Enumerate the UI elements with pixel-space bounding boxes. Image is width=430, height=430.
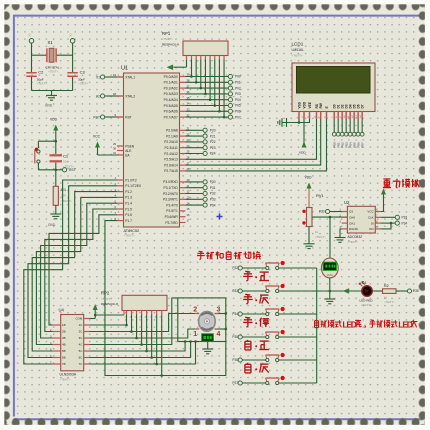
svg-text:P33: P33 (232, 289, 238, 293)
svg-text:P0.3/AD3: P0.3/AD3 (164, 92, 178, 96)
svg-text:P07: P07 (235, 115, 241, 119)
svg-text:P1.0/T2: P1.0/T2 (125, 178, 137, 182)
svg-text:CS: CS (349, 210, 353, 214)
svg-text:1: 1 (193, 331, 197, 338)
svg-text:P03: P03 (235, 92, 241, 96)
svg-text:CRYSTAL: CRYSTAL (46, 66, 60, 70)
svg-text:X2: X2 (96, 94, 100, 98)
svg-text:D7: D7 (361, 104, 365, 108)
svg-text:VDD: VDD (305, 176, 313, 180)
svg-text:3C: 3C (79, 336, 83, 340)
svg-text:7B: 7B (62, 362, 66, 366)
svg-text:U1: U1 (121, 66, 128, 72)
svg-text:VDD: VDD (302, 101, 306, 108)
svg-text:P32: P32 (232, 266, 238, 270)
svg-text:P36: P36 (232, 358, 238, 362)
svg-text:P32: P32 (210, 192, 216, 196)
svg-text:P33: P33 (210, 198, 216, 202)
svg-text:P2.0/A8: P2.0/A8 (166, 129, 178, 133)
svg-text:10u: 10u (63, 160, 68, 164)
svg-text:P33: P33 (402, 216, 408, 220)
svg-text:P3.3/INT1: P3.3/INT1 (163, 198, 178, 202)
svg-text:C1: C1 (63, 154, 69, 159)
svg-text:GND.: GND. (45, 104, 53, 108)
svg-text:P31: P31 (210, 186, 216, 190)
svg-text:X1: X1 (96, 75, 100, 79)
svg-text:P2.4/A12: P2.4/A12 (164, 152, 178, 156)
svg-text:<TEXT>: <TEXT> (78, 82, 88, 86)
svg-text:U4: U4 (59, 308, 65, 313)
svg-text:P20: P20 (210, 129, 216, 133)
svg-text:<TEXT>: <TEXT> (361, 303, 372, 307)
svg-text:ALE: ALE (125, 149, 132, 153)
svg-text:P0.1/AD1: P0.1/AD1 (164, 81, 178, 85)
svg-text:P0.2/AD2: P0.2/AD2 (164, 86, 178, 90)
svg-text:<TEXT>: <TEXT> (347, 240, 358, 244)
svg-text:RESPACK-8: RESPACK-8 (101, 302, 118, 306)
svg-text:4: 4 (217, 331, 221, 338)
svg-text:2: 2 (193, 306, 197, 313)
svg-text:10K: 10K (61, 194, 66, 198)
svg-text:P30: P30 (210, 180, 216, 184)
svg-text:P3.7/RD: P3.7/RD (165, 221, 178, 225)
svg-text:<TEXT>: <TEXT> (315, 235, 326, 239)
svg-text:6B: 6B (62, 356, 66, 360)
svg-text:XTAL2: XTAL2 (125, 94, 135, 98)
svg-text:P3.1/TXD: P3.1/TXD (164, 186, 179, 190)
svg-text:RP2: RP2 (101, 291, 110, 296)
svg-text:VCC: VCC (93, 135, 101, 139)
svg-text:P0.4/AD4: P0.4/AD4 (164, 98, 178, 102)
svg-text:D: D (407, 319, 413, 329)
svg-text:RV1: RV1 (316, 193, 324, 198)
svg-text:P02: P02 (235, 86, 241, 90)
svg-text:DGND: DGND (349, 227, 359, 231)
svg-text:CH0: CH0 (349, 216, 355, 220)
svg-text:P1.5: P1.5 (125, 207, 132, 211)
svg-text:P21: P21 (210, 134, 216, 138)
svg-text:Volts: Volts (327, 273, 334, 277)
svg-text:P2.2/A10: P2.2/A10 (164, 140, 178, 144)
svg-text:U2: U2 (344, 200, 350, 205)
svg-text:1C: 1C (79, 323, 83, 327)
svg-text:P05: P05 (235, 104, 241, 108)
svg-text:GND.: GND. (48, 223, 56, 227)
svg-text:<TEXT>: <TEXT> (292, 54, 303, 58)
svg-text:P3.0/RXD: P3.0/RXD (163, 180, 178, 184)
svg-text:<TEXT>: <TEXT> (48, 70, 58, 74)
svg-text:P30: P30 (319, 210, 325, 214)
svg-text:P3.2/INT0: P3.2/INT0 (163, 192, 178, 196)
svg-text:VSS: VSS (297, 102, 301, 108)
svg-text:P3.5/T1: P3.5/T1 (166, 209, 178, 213)
svg-text:P1.4: P1.4 (125, 202, 132, 206)
svg-text:X2: X2 (69, 33, 73, 37)
svg-text:C3: C3 (80, 70, 86, 75)
svg-text:VDD: VDD (299, 151, 306, 155)
svg-text:5C: 5C (79, 349, 83, 353)
svg-text:30pF: 30pF (37, 77, 44, 81)
svg-text:VCC: VCC (367, 210, 374, 214)
svg-text:P0.0/AD0: P0.0/AD0 (164, 75, 178, 79)
svg-text:X1: X1 (48, 40, 54, 45)
svg-text:ULN2003A: ULN2003A (60, 373, 77, 377)
svg-text:CLK: CLK (368, 216, 374, 220)
svg-text:RST: RST (69, 168, 76, 172)
svg-text:DO: DO (369, 227, 374, 231)
svg-text:7C: 7C (79, 362, 83, 366)
svg-text:5B: 5B (62, 349, 66, 353)
svg-text:P1.1/T2EX: P1.1/T2EX (125, 184, 142, 188)
svg-text:4C: 4C (79, 343, 83, 347)
svg-text:PSEN: PSEN (125, 144, 135, 148)
svg-text:P34: P34 (210, 203, 216, 207)
svg-text:X1: X1 (28, 33, 32, 37)
svg-text:P07: P07 (360, 142, 364, 148)
svg-text:2C: 2C (79, 330, 83, 334)
svg-text:<TEXT>: <TEXT> (37, 82, 47, 86)
svg-text:P2.1/A9: P2.1/A9 (166, 134, 178, 138)
svg-text:2B: 2B (62, 330, 66, 334)
svg-text:P1.6: P1.6 (125, 213, 132, 217)
svg-text:4B: 4B (62, 343, 66, 347)
svg-text:<TEXT>: <TEXT> (124, 234, 135, 238)
svg-text:P1.3: P1.3 (125, 196, 132, 200)
svg-text:ADC0832: ADC0832 (347, 235, 362, 239)
svg-text:P06: P06 (235, 110, 241, 114)
svg-text:LED-RED: LED-RED (360, 299, 374, 303)
svg-text:3: 3 (217, 306, 221, 313)
svg-text:RW: RW (319, 103, 323, 108)
svg-text:<TEXT>: <TEXT> (101, 297, 112, 301)
svg-text:RESPACK-8: RESPACK-8 (162, 43, 179, 47)
svg-text:<TEXT>: <TEXT> (384, 300, 395, 304)
svg-text:DI: DI (371, 221, 374, 225)
svg-text:P0.5/AD5: P0.5/AD5 (164, 104, 178, 108)
svg-text:P35: P35 (232, 335, 238, 339)
svg-text:E: E (325, 106, 329, 108)
svg-text:P3.4/T0: P3.4/T0 (166, 203, 178, 207)
svg-text:P22: P22 (210, 140, 216, 144)
svg-text:COM: COM (76, 317, 83, 321)
svg-text:RP1: RP1 (162, 31, 171, 36)
svg-text:VDD: VDD (50, 118, 58, 122)
svg-text:P0.6/AD6: P0.6/AD6 (164, 110, 178, 114)
svg-text:P2.6/A14: P2.6/A14 (164, 163, 178, 167)
svg-text:AT89C52: AT89C52 (124, 229, 140, 233)
svg-text:P35: P35 (413, 289, 419, 293)
svg-text:VEE: VEE (308, 102, 312, 108)
svg-text:3B: 3B (62, 336, 66, 340)
svg-text:P3.6/WR: P3.6/WR (165, 215, 179, 219)
svg-text:XTAL1: XTAL1 (125, 75, 135, 79)
svg-text:P23: P23 (210, 146, 216, 150)
svg-text:P34: P34 (232, 312, 238, 316)
svg-text:P01: P01 (235, 81, 241, 85)
svg-text:P04: P04 (235, 98, 241, 102)
svg-text:CH1: CH1 (349, 221, 355, 225)
svg-text:P1.7: P1.7 (125, 219, 132, 223)
svg-text:C2: C2 (38, 70, 44, 75)
svg-text:<TEXT>: <TEXT> (162, 37, 173, 41)
svg-text:P00: P00 (235, 75, 241, 79)
svg-text:30pF: 30pF (78, 77, 85, 81)
svg-text:P34: P34 (402, 221, 408, 225)
svg-text:P0.7/AD7: P0.7/AD7 (164, 115, 178, 119)
svg-text:LM016L: LM016L (292, 48, 304, 52)
svg-text:RST: RST (125, 115, 132, 119)
svg-text:P37: P37 (232, 381, 238, 385)
svg-text:P1.2: P1.2 (125, 190, 132, 194)
svg-text:<TEXT>: <TEXT> (60, 377, 71, 381)
svg-text:P2.3/A11: P2.3/A11 (164, 146, 177, 150)
svg-text:P24: P24 (210, 152, 216, 156)
svg-text:1B: 1B (62, 323, 66, 327)
svg-text:R2: R2 (384, 284, 389, 288)
svg-text:LCD1: LCD1 (292, 42, 304, 47)
svg-text:P2.5/A13: P2.5/A13 (164, 158, 178, 162)
svg-text:RST: RST (93, 115, 100, 119)
svg-text:P2.7/A15: P2.7/A15 (164, 169, 178, 173)
svg-text:R1: R1 (61, 187, 67, 192)
svg-text:6C: 6C (79, 356, 83, 360)
